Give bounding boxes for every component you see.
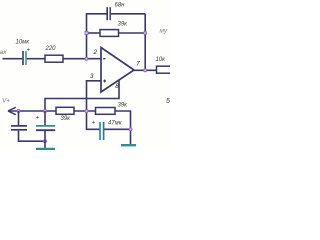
wire pin3 [87, 81, 102, 130]
wire rail mid [74, 110, 96, 112]
wire pin8 drop [45, 80, 119, 111]
svg-text:47мк: 47мк [108, 120, 123, 126]
wire rail right down to ground [115, 111, 131, 144]
svg-text:39к: 39к [61, 116, 72, 122]
capacitor C1 10мк [23, 48, 30, 66]
minus mark [103, 58, 105, 59]
wire cap1 bottom rail [19, 131, 46, 141]
capacitor C5 47мк [100, 122, 104, 140]
junction rail cap1 [17, 110, 20, 113]
ground right [121, 144, 136, 146]
svg-text:39к: 39к [118, 103, 129, 109]
svg-text:+: + [92, 120, 95, 126]
wire feedback top left [86, 13, 107, 15]
junction rail bias mid [85, 110, 88, 113]
svg-text:+: + [36, 115, 39, 121]
svg-text:220: 220 [45, 46, 57, 52]
wire output [134, 69, 157, 71]
svg-text:V+: V+ [2, 98, 10, 105]
resistor R4 39к bias lower [96, 108, 116, 115]
wire feedback left vertical [86, 14, 88, 59]
capacitor C3 [11, 126, 27, 130]
resistor R1 220 [45, 55, 63, 62]
wire feedback right vertical [144, 14, 146, 71]
wire feedback mid left [87, 32, 101, 34]
svg-text:2: 2 [93, 49, 98, 56]
svg-text:3: 3 [90, 73, 94, 80]
capacitor C2 68н [107, 7, 110, 20]
svg-text:10к: 10к [156, 57, 167, 63]
wire cap2 stem [44, 111, 46, 125]
resistor R2 39к feedback [100, 30, 119, 37]
junction rail pin8 branch [44, 110, 47, 113]
node C5 ground tee [129, 128, 132, 131]
V+ arrow [8, 107, 16, 114]
wire R2 to right vertical [119, 32, 146, 34]
svg-text:5: 5 [166, 98, 170, 105]
wire V+ rail left [8, 110, 56, 112]
svg-text:10мк: 10мк [16, 40, 31, 46]
resistor R5 10к [157, 66, 173, 73]
svg-text:+: + [27, 48, 30, 54]
capacitor C4 [36, 126, 55, 130]
wire C5 right [104, 128, 130, 130]
svg-text:39к: 39к [118, 22, 129, 28]
wire cap2 to ground [44, 131, 46, 148]
junction fb tee [85, 32, 88, 35]
wire feedback top right [111, 13, 145, 15]
svg-text:7: 7 [136, 61, 140, 68]
node fb right tee [144, 32, 147, 35]
wire cap1 stem [18, 111, 20, 125]
node output junction [144, 69, 147, 72]
plus mark [103, 80, 106, 83]
op-amp U1 [101, 48, 134, 93]
svg-text:вх: вх [0, 49, 7, 56]
node junction input [85, 57, 88, 60]
wire R1 to pin2 [63, 58, 101, 60]
resistor R3 39к bias [56, 107, 74, 114]
node rail bottom join [44, 140, 47, 143]
svg-text:му: му [160, 27, 168, 34]
ground left [36, 148, 55, 150]
wire input to C1 [3, 58, 23, 60]
wire C1 to R1 [27, 58, 45, 60]
svg-text:68н: 68н [115, 3, 126, 9]
